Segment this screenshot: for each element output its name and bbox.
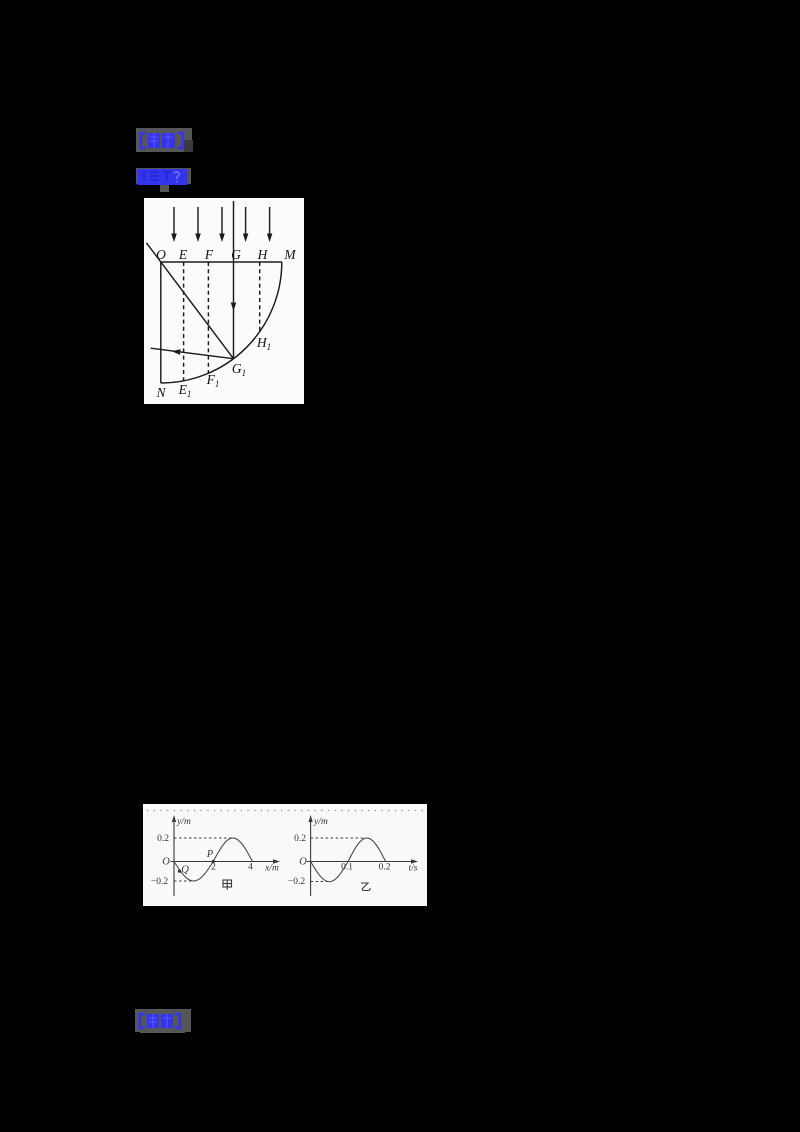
wave graphs figure (white scanned figure 甲/乙) bbox=[143, 804, 427, 906]
incident ray arrow 1 bbox=[171, 207, 177, 242]
incident ray arrow 4 bbox=[243, 207, 249, 242]
point labels bbox=[155, 247, 296, 400]
svg-text:F: F bbox=[204, 247, 214, 262]
label box 3 (blue 【解析】 tag on gray) bbox=[135, 1009, 191, 1032]
ray through G down to G1 with arrowhead bbox=[231, 201, 237, 359]
svg-text:O: O bbox=[162, 856, 170, 867]
label box 1 (blue 【解析】 tag on gray) bbox=[136, 128, 192, 152]
left graph x-axis bbox=[171, 859, 281, 863]
svg-text:0.1: 0.1 bbox=[341, 862, 353, 872]
svg-text:O: O bbox=[156, 247, 166, 262]
physics optics diagram (white scanned figure) bbox=[144, 198, 304, 404]
left graph dashed +0.2 level bbox=[174, 837, 233, 839]
top surface line O to M bbox=[161, 261, 282, 263]
svg-text:0.2: 0.2 bbox=[379, 862, 391, 872]
svg-text:G1: G1 bbox=[232, 361, 246, 378]
svg-text:y/m: y/m bbox=[313, 817, 328, 827]
left graph dashed -0.2 level bbox=[174, 880, 193, 882]
svg-text:−0.2: −0.2 bbox=[151, 877, 168, 887]
svg-text:M: M bbox=[283, 247, 296, 262]
right graph text labels bbox=[288, 817, 418, 887]
right graph dashed +0.2 level bbox=[311, 837, 367, 839]
svg-text:H: H bbox=[257, 247, 269, 262]
faint dotted scan line across top bbox=[147, 809, 423, 811]
svg-text:2: 2 bbox=[211, 862, 216, 872]
right graph dashed -0.2 level bbox=[311, 880, 329, 882]
svg-text:t/s: t/s bbox=[409, 863, 418, 873]
right graph x-axis bbox=[307, 859, 418, 863]
svg-text:O: O bbox=[299, 856, 307, 867]
incident ray arrow 2 bbox=[195, 207, 201, 242]
label box 2 (mostly blue highlighted tag) bbox=[136, 168, 191, 184]
svg-text:G: G bbox=[231, 247, 241, 262]
svg-text:E: E bbox=[178, 247, 188, 262]
refracted ray leaving G1 to the left with arrowhead bbox=[151, 348, 234, 359]
dashed vertical at E bbox=[183, 262, 185, 381]
svg-text:0.2: 0.2 bbox=[157, 834, 169, 844]
svg-text:F1: F1 bbox=[206, 372, 220, 389]
svg-text:−0.2: −0.2 bbox=[288, 877, 305, 887]
quarter-circle arc M to N bbox=[161, 262, 282, 383]
svg-text:N: N bbox=[155, 385, 166, 400]
svg-text:y/m: y/m bbox=[176, 817, 191, 827]
left wall O to N bbox=[160, 262, 162, 383]
svg-text:0.2: 0.2 bbox=[294, 834, 306, 844]
right graph sine curve bbox=[311, 838, 386, 882]
乙 glyph (CJK drawn) bbox=[361, 883, 370, 891]
svg-text:4: 4 bbox=[248, 862, 253, 872]
svg-text:x/m: x/m bbox=[264, 863, 279, 873]
point P dot bbox=[212, 859, 215, 862]
radius line through O to G1 (normal) bbox=[146, 243, 233, 359]
incident ray arrow 5 bbox=[267, 207, 273, 242]
left graph text labels bbox=[151, 817, 279, 887]
dashed vertical at F bbox=[207, 262, 209, 373]
point Q dot bbox=[178, 869, 181, 872]
svg-text:P: P bbox=[206, 849, 214, 860]
svg-text:E1: E1 bbox=[178, 382, 192, 399]
svg-text:Q: Q bbox=[181, 864, 189, 875]
svg-text:H1: H1 bbox=[256, 335, 271, 352]
right graph y-axis bbox=[308, 815, 312, 896]
dashed vertical at H bbox=[259, 262, 261, 332]
incident ray arrow 3 bbox=[219, 207, 225, 242]
gray tab under label 2 bbox=[160, 184, 169, 192]
left graph y-axis bbox=[172, 815, 176, 896]
甲 glyph (CJK drawn) bbox=[223, 880, 232, 890]
left graph sine curve bbox=[174, 838, 253, 881]
